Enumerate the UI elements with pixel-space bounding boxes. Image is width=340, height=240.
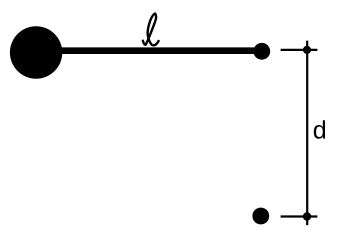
bottom tick <box>281 215 318 217</box>
top tick dot <box>303 46 311 54</box>
label ell <box>143 14 159 46</box>
rod <box>36 47 261 54</box>
small ball below <box>252 208 269 225</box>
label d <box>314 120 325 138</box>
small ball at rod end <box>253 43 270 60</box>
bottom tick dot <box>303 212 311 220</box>
large ball <box>10 26 62 78</box>
top tick <box>281 49 318 51</box>
dimension line d (vertical) <box>306 41 308 226</box>
